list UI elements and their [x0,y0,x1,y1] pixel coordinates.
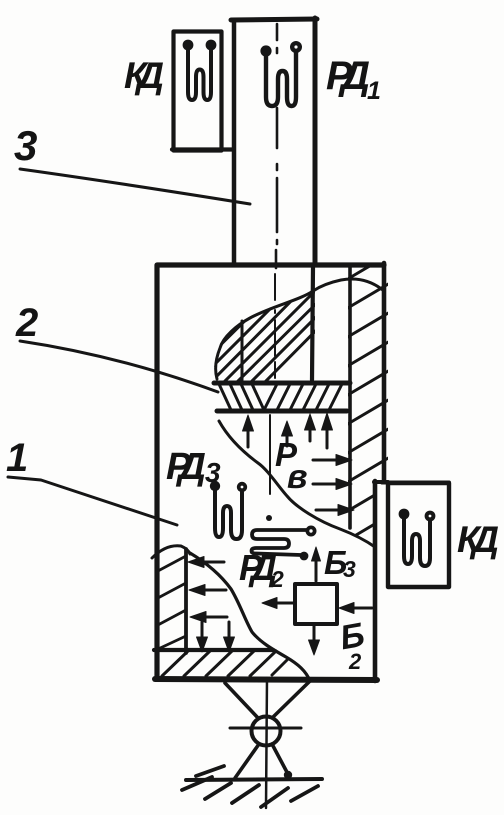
break-out boundary S-curve [190,553,310,681]
piston hatching [140,286,360,385]
up arrow Б3 [312,547,321,581]
ground hatching [182,766,318,807]
piston seal band (item 2) top edge [214,381,350,386]
pivot leg dot [284,771,292,779]
rod (item 3) left edge [232,21,237,264]
right wall hatching [346,254,390,570]
down arrow 2 to floor [224,622,235,652]
left arrow 1 into left wall [188,557,224,568]
piston right edge [312,267,313,380]
svg-text:2: 2 [270,566,284,592]
left wall top break curve [152,546,190,558]
break curve through rod and piston [216,279,384,379]
svg-text:1: 1 [367,77,381,105]
pivot lower right leg [272,744,289,776]
svg-text:2: 2 [15,301,38,345]
body bottom edge [155,679,377,680]
svg-text:РД: РД [166,446,206,488]
sensor РД3 filament [210,481,247,539]
ground line [186,779,322,780]
leader line 3 [20,169,250,204]
up arrow 3 under piston [305,414,316,441]
floor band hatching [162,651,288,676]
pivot vertical centerline [266,678,267,808]
svg-text:1: 1 [6,436,28,480]
seal band right hatching [264,384,342,410]
right wall inner edge [348,266,352,528]
right КД filament [399,509,436,566]
svg-text:3: 3 [14,122,37,169]
right arrow 1 into wall [313,455,352,466]
sensor КД filament [183,40,217,100]
svg-text:2: 2 [348,649,362,674]
sensor box КД (top left) [174,32,222,151]
svg-text:РД: РД [326,54,370,98]
left wall hatching [156,556,186,650]
chamber centerline segment [269,415,271,494]
seal band left hatching [219,384,264,410]
piston inner vertical line [241,321,244,380]
rod right edge [313,18,318,264]
sensor РД2 serpentine [252,527,315,560]
left arrow 2 into left wall [189,585,226,596]
rod centerline (dash-dot) [276,24,277,268]
rod top edge [231,19,317,20]
down arrow Б2 [309,626,320,655]
sensor box КД (right) [388,483,449,587]
body right outer edge upper [382,263,387,482]
up arrow 1 under piston [243,415,254,447]
right arrow 3 into wall [316,505,354,516]
floor band top edge [154,648,273,652]
pivot circle [252,717,281,746]
svg-text:КД: КД [124,55,164,96]
body right edge lower [373,481,378,681]
left wall inner edge [184,549,188,653]
up arrow 2 under piston [282,421,293,446]
seal band bottom edge [217,409,347,414]
body step at y481 [374,480,388,484]
down arrow 1 to floor [197,622,208,652]
pivot horizontal line [230,727,301,730]
pivot lower left leg [235,744,259,778]
pivot left slope [225,683,259,719]
svg-text:3: 3 [343,556,356,582]
right arrow into square [339,603,372,614]
left arrow 3 into left wall [190,612,227,623]
piston centerline [274,274,276,378]
leader line 2 [20,341,218,392]
centerline dot [266,515,272,521]
svg-text:КД: КД [457,519,499,560]
sensor РД1 filament in rod [260,41,302,106]
converter square Б [295,584,337,624]
cylinder body outline [157,265,384,679]
up arrow 4 under piston [322,413,333,448]
lower break curve (chamber boundary) [219,421,375,547]
pivot right slope [270,681,310,720]
left arrow out of square [262,598,294,609]
svg-text:в: в [287,458,308,496]
right arrow 2 into wall [313,479,352,490]
leader line 1 [8,477,177,525]
